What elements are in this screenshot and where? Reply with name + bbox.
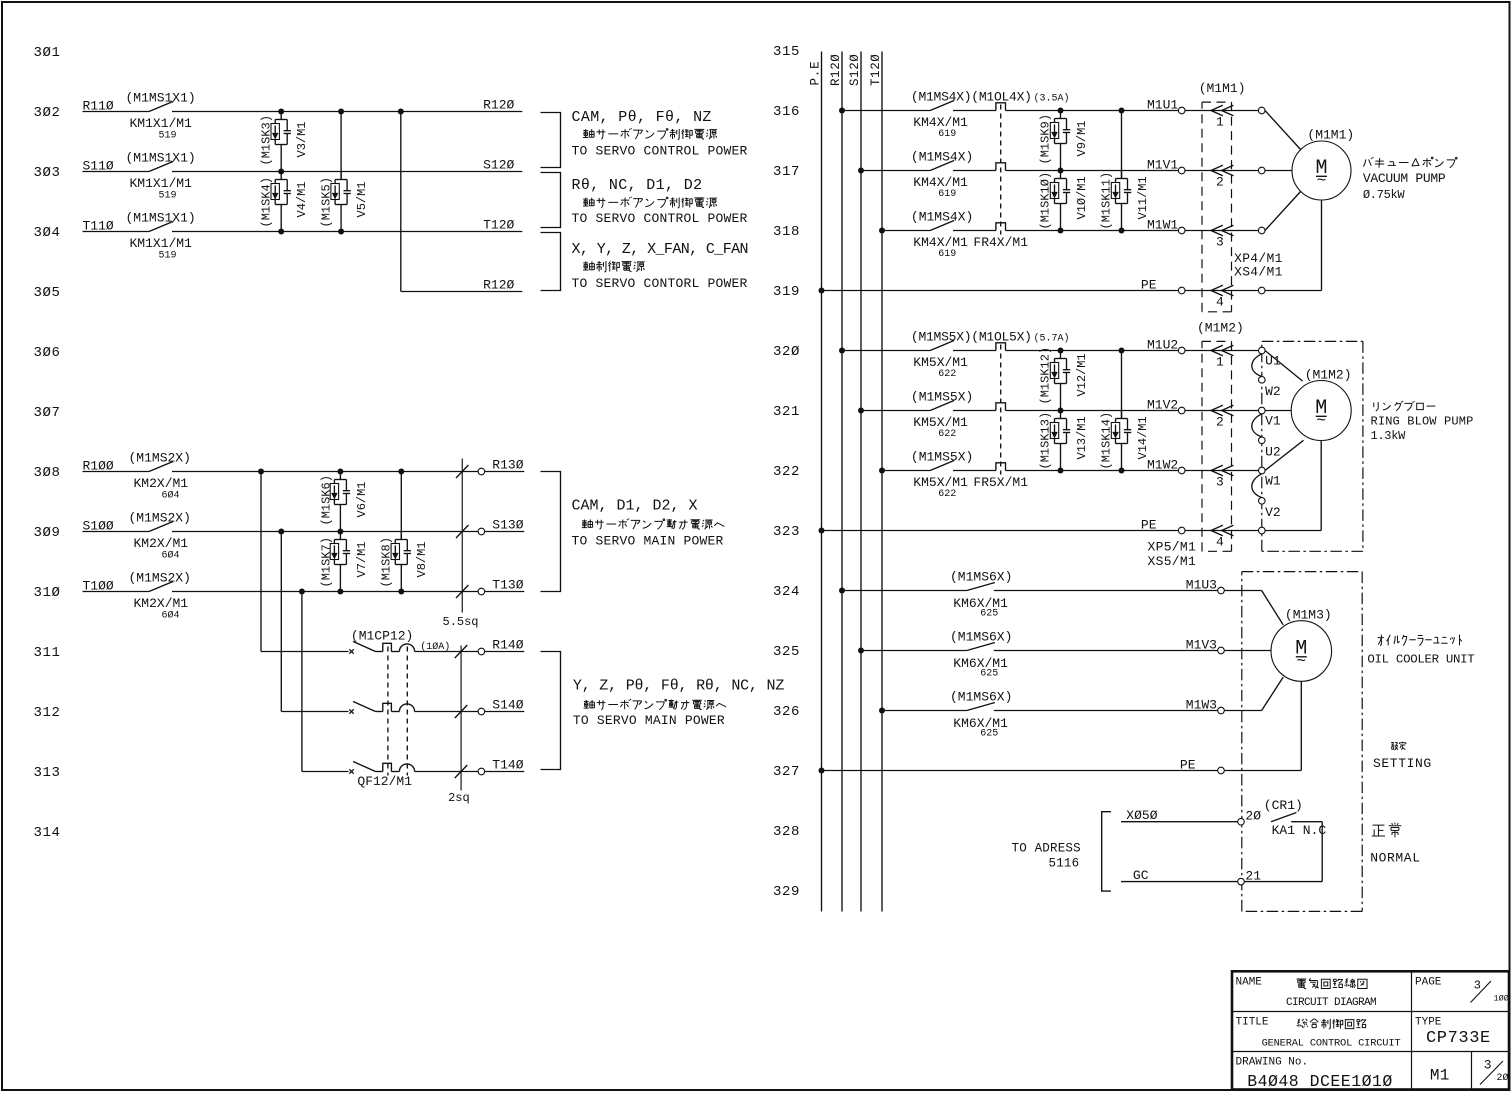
wire T100 row 310 bbox=[83, 591, 150, 593]
svg-text:KM5X/M1: KM5X/M1 bbox=[913, 475, 968, 490]
surge killer M1SK13 V13/M1 bbox=[1060, 411, 1062, 419]
contact KM6X/M1 (M1MS6X) row 326 bbox=[967, 703, 995, 711]
bus junction row 318 bbox=[879, 228, 885, 234]
svg-text:(M1SK8): (M1SK8) bbox=[380, 537, 394, 587]
svg-text:622: 622 bbox=[938, 369, 956, 380]
connector pin 3 arrows bbox=[1211, 225, 1223, 235]
surge killer M1SK9 V9/M1 bbox=[1060, 111, 1062, 119]
svg-text:(M1SK12): (M1SK12) bbox=[1039, 347, 1053, 405]
svg-text:V2: V2 bbox=[1265, 505, 1281, 520]
svg-text:CP733E: CP733E bbox=[1426, 1029, 1491, 1048]
svg-text:M1W2: M1W2 bbox=[1147, 458, 1178, 473]
svg-text:625: 625 bbox=[980, 609, 998, 620]
wire vertical to R120 row305 bbox=[400, 112, 402, 292]
svg-text:31Ø: 31Ø bbox=[34, 585, 61, 601]
svg-text:CIRCUIT DIAGRAM: CIRCUIT DIAGRAM bbox=[1286, 997, 1376, 1009]
svg-text:KM4X/M1: KM4X/M1 bbox=[913, 235, 968, 250]
svg-text:3Ø3: 3Ø3 bbox=[34, 165, 61, 181]
bus junction row 327 bbox=[819, 768, 825, 774]
wire S100 row 309 bbox=[83, 531, 150, 533]
bracket group CAM P0 F0 NZ bbox=[541, 113, 561, 168]
junction row302 x340 bbox=[338, 109, 344, 115]
connector M1M1 dashed box bbox=[1202, 101, 1232, 103]
svg-text:5116: 5116 bbox=[1049, 857, 1080, 871]
wire feed row 312 bbox=[280, 532, 282, 712]
surge killer M1SK7 V7/M1 bbox=[339, 532, 341, 540]
motor M1M3 oil cooler bbox=[1271, 621, 1332, 682]
svg-text:3Ø9: 3Ø9 bbox=[34, 525, 61, 541]
svg-text:(M1CP12): (M1CP12) bbox=[351, 629, 413, 644]
svg-text:(M1MS1X1): (M1MS1X1) bbox=[126, 211, 196, 226]
bracket group CAM D1 D2 X bbox=[541, 472, 561, 592]
bus P.E bbox=[821, 52, 823, 912]
text ring blow pump labels bbox=[1374, 401, 1436, 411]
svg-text:V1Ø/M1: V1Ø/M1 bbox=[1075, 176, 1089, 219]
svg-text:PE: PE bbox=[1141, 278, 1157, 293]
svg-text:T14Ø: T14Ø bbox=[492, 758, 523, 773]
connector pin 1 arrows bbox=[1211, 105, 1223, 115]
svg-text:FR4X/M1: FR4X/M1 bbox=[973, 235, 1028, 250]
svg-text:KM1X1/M1: KM1X1/M1 bbox=[130, 236, 193, 251]
svg-text:GENERAL CONTROL CIRCUIT: GENERAL CONTROL CIRCUIT bbox=[1262, 1038, 1401, 1050]
connector M1M2 pin 2 arrows bbox=[1211, 405, 1223, 415]
svg-text:619: 619 bbox=[938, 129, 956, 140]
svg-text:TITLE: TITLE bbox=[1236, 1017, 1269, 1029]
overload element FR4X/M1 row 318 bbox=[996, 223, 1006, 231]
svg-text:T11Ø: T11Ø bbox=[83, 219, 114, 234]
svg-text:S13Ø: S13Ø bbox=[492, 518, 523, 533]
junction row309 x340 bbox=[337, 529, 343, 535]
svg-text:(M1M1): (M1M1) bbox=[1307, 128, 1354, 143]
junction row316 x1060 bbox=[1058, 108, 1064, 114]
svg-text:TYPE: TYPE bbox=[1415, 1017, 1442, 1029]
svg-text:R13Ø: R13Ø bbox=[492, 458, 523, 473]
wire row 324 M1U3 bbox=[842, 590, 967, 592]
text setting bbox=[1391, 742, 1406, 750]
svg-text:~: ~ bbox=[1296, 653, 1306, 671]
surge killer M1SK10 V10/M1 bbox=[1060, 171, 1062, 179]
svg-text:(M1MS1X1): (M1MS1X1) bbox=[126, 151, 196, 166]
svg-text:S12Ø: S12Ø bbox=[483, 158, 514, 173]
svg-text:(M1MS1X1): (M1MS1X1) bbox=[126, 91, 196, 106]
svg-text:P.E: P.E bbox=[809, 61, 823, 86]
contact KM5X/M1 (M1MS5X) row 322 bbox=[930, 461, 954, 471]
svg-text:TO SERVO MAIN POWER: TO SERVO MAIN POWER bbox=[572, 534, 724, 549]
cable mark 5.5sq bbox=[461, 459, 463, 613]
svg-text:RING BLOW PUMP: RING BLOW PUMP bbox=[1371, 415, 1474, 429]
connector M1M2 pin 3 arrows bbox=[1211, 465, 1223, 475]
svg-text:3Ø1: 3Ø1 bbox=[34, 45, 61, 61]
contact KM6X/M1 (M1MS6X) row 325 bbox=[967, 643, 995, 651]
svg-text:V7/M1: V7/M1 bbox=[355, 541, 369, 577]
svg-text:6Ø4: 6Ø4 bbox=[162, 490, 180, 502]
svg-text:(M1SK7): (M1SK7) bbox=[320, 537, 334, 587]
svg-text:V13/M1: V13/M1 bbox=[1075, 416, 1089, 459]
svg-text:U2: U2 bbox=[1265, 444, 1281, 459]
svg-text:(M1MS5X)(M1OL5X): (M1MS5X)(M1OL5X) bbox=[911, 330, 1032, 345]
motor-side terminal row 316 bbox=[1258, 107, 1265, 114]
surge killer M1SK4 V4/M1 bbox=[280, 172, 282, 180]
surge killer M1SK5 V5/M1 bbox=[340, 112, 342, 180]
svg-text:3Ø6: 3Ø6 bbox=[34, 345, 61, 361]
svg-text:FR5X/M1: FR5X/M1 bbox=[973, 475, 1028, 490]
svg-text:(M1M1): (M1M1) bbox=[1199, 81, 1246, 96]
svg-text:(M1MS4X): (M1MS4X) bbox=[911, 150, 973, 165]
svg-text:KA1 N.C: KA1 N.C bbox=[1272, 823, 1327, 838]
svg-text:519: 519 bbox=[159, 251, 177, 262]
svg-text:(M1SK1Ø): (M1SK1Ø) bbox=[1039, 172, 1053, 230]
svg-text:KM5X/M1: KM5X/M1 bbox=[913, 355, 968, 370]
svg-text:KM2X/M1: KM2X/M1 bbox=[134, 476, 189, 491]
svg-text:R12Ø: R12Ø bbox=[483, 98, 514, 113]
terminal S140 bbox=[478, 708, 485, 715]
connector pin 4 arrows bbox=[1211, 285, 1223, 295]
bulkhead terminals and winding links M1M2 bbox=[1259, 347, 1266, 354]
contact KM2X/M1 (M1MS2X) row 310 bbox=[149, 582, 173, 592]
wire row 320 M1U2 bbox=[842, 350, 930, 352]
terminal R130 bbox=[478, 468, 485, 475]
svg-text:X, Y, Z, X_FAN, C_FAN: X, Y, Z, X_FAN, C_FAN bbox=[572, 241, 748, 258]
motor-side terminal row 318 bbox=[1258, 227, 1265, 234]
wire X050 row 328 bbox=[1121, 821, 1238, 823]
overload element FR4X/M1 row 316 bbox=[996, 103, 1006, 111]
svg-text:QF12/M1: QF12/M1 bbox=[357, 774, 412, 789]
junction row308 x340 bbox=[337, 469, 343, 475]
breaker pole QF12/M1 row 312 bbox=[349, 709, 353, 713]
svg-text:323: 323 bbox=[773, 524, 800, 540]
svg-text:T13Ø: T13Ø bbox=[492, 578, 523, 593]
svg-text:V9/M1: V9/M1 bbox=[1075, 120, 1089, 156]
overload linkage dashed row320-322 bbox=[1000, 345, 1002, 475]
svg-text:T1ØØ: T1ØØ bbox=[83, 579, 114, 594]
contact KM5X/M1 (M1MS5X) row 320 bbox=[930, 341, 954, 351]
overload element FR5X/M1 row 321 bbox=[996, 403, 1006, 411]
svg-text:21: 21 bbox=[1245, 869, 1261, 884]
svg-text:(CR1): (CR1) bbox=[1264, 798, 1303, 813]
svg-text:(M1SK4): (M1SK4) bbox=[260, 177, 274, 227]
svg-text:CAM, D1, D2, X: CAM, D1, D2, X bbox=[572, 498, 698, 515]
svg-text:Y, Z, Pθ, Fθ, Rθ, NC, NZ: Y, Z, Pθ, Fθ, Rθ, NC, NZ bbox=[573, 678, 784, 695]
svg-text:2Ø: 2Ø bbox=[1497, 1072, 1509, 1084]
svg-text:V4/M1: V4/M1 bbox=[295, 181, 309, 217]
svg-text:(M1SK13): (M1SK13) bbox=[1039, 412, 1053, 470]
svg-text:3Ø4: 3Ø4 bbox=[34, 225, 61, 241]
wire GC row 329 bbox=[1121, 881, 1238, 883]
bus S120 bbox=[860, 52, 862, 912]
svg-text:M1W1: M1W1 bbox=[1147, 218, 1178, 233]
contact KM2X/M1 (M1MS2X) row 308 bbox=[149, 462, 173, 472]
svg-text:2Ø: 2Ø bbox=[1245, 809, 1261, 824]
svg-text:V11/M1: V11/M1 bbox=[1136, 176, 1150, 219]
bus junction row 317 bbox=[858, 168, 864, 174]
svg-text:NAME: NAME bbox=[1236, 977, 1263, 989]
wire R100 row 308 bbox=[83, 471, 150, 473]
junction row320 x1060 bbox=[1058, 348, 1064, 354]
junction row322 x1060 bbox=[1058, 468, 1064, 474]
svg-text:TO SERVO CONTROL POWER: TO SERVO CONTROL POWER bbox=[572, 211, 748, 226]
bus junction row 322 bbox=[879, 468, 885, 474]
text oil cooler unit labels bbox=[1378, 635, 1462, 646]
overload element FR5X/M1 row 320 bbox=[996, 343, 1006, 351]
svg-text:3Ø8: 3Ø8 bbox=[34, 465, 61, 481]
junction row320 x1121 bbox=[1119, 348, 1125, 354]
svg-text:KM2X/M1: KM2X/M1 bbox=[134, 536, 189, 551]
svg-text:Rθ, NC, D1, D2: Rθ, NC, D1, D2 bbox=[572, 177, 703, 194]
title block frame bbox=[1232, 971, 1509, 1089]
svg-text:KM1X1/M1: KM1X1/M1 bbox=[130, 116, 193, 131]
junction row310 x400 bbox=[398, 589, 404, 595]
svg-text:1: 1 bbox=[1216, 115, 1224, 130]
svg-text:V6/M1: V6/M1 bbox=[355, 481, 369, 517]
svg-text:R14Ø: R14Ø bbox=[492, 638, 523, 653]
contact KM1X1/M1 (M1MS1X1) row 302 bbox=[149, 102, 173, 112]
svg-text:(3.5A): (3.5A) bbox=[1034, 93, 1070, 105]
svg-text:325: 325 bbox=[773, 644, 800, 660]
svg-text:622: 622 bbox=[938, 429, 956, 440]
connector M1M2 pin 1 arrows bbox=[1211, 345, 1223, 355]
bus junction row 325 bbox=[858, 648, 864, 654]
junction row316 x1121 bbox=[1119, 108, 1125, 114]
terminal T140 bbox=[478, 768, 485, 775]
junction row321 x1060 bbox=[1058, 408, 1064, 414]
svg-text:W2: W2 bbox=[1265, 384, 1281, 399]
terminal S130 bbox=[478, 528, 485, 535]
enclosure box oil cooler dash-dot bbox=[1242, 571, 1362, 573]
svg-text:M1U1: M1U1 bbox=[1147, 98, 1178, 113]
svg-text:V14/M1: V14/M1 bbox=[1136, 416, 1150, 459]
svg-text:PAGE: PAGE bbox=[1415, 977, 1442, 989]
motor M1M2 wiring bbox=[1265, 351, 1303, 382]
svg-text:R12Ø: R12Ø bbox=[483, 278, 514, 293]
junction row318 x1121 bbox=[1119, 228, 1125, 234]
svg-text:XP5/M1: XP5/M1 bbox=[1148, 540, 1197, 555]
svg-text:V5/M1: V5/M1 bbox=[355, 181, 369, 217]
wire feed row 311 bbox=[260, 472, 262, 652]
wire T110 row 304 bbox=[83, 231, 150, 233]
svg-text:2sq: 2sq bbox=[448, 791, 470, 805]
junction row310 x340 bbox=[337, 589, 343, 595]
svg-text:M1V3: M1V3 bbox=[1186, 638, 1217, 653]
svg-text:~: ~ bbox=[1317, 172, 1327, 190]
svg-text:XS4/M1: XS4/M1 bbox=[1234, 265, 1283, 280]
svg-text:322: 322 bbox=[773, 464, 800, 480]
bracket group X Y Z FAN bbox=[541, 233, 561, 291]
svg-text:R11Ø: R11Ø bbox=[83, 99, 114, 114]
wire row 323 PE bbox=[822, 530, 1179, 532]
svg-text:327: 327 bbox=[773, 764, 800, 780]
wire row 319 PE bbox=[822, 290, 1179, 292]
svg-text:3: 3 bbox=[1216, 475, 1224, 490]
motor M1M2 ring blow pump bbox=[1291, 381, 1351, 441]
svg-text:(M1MS2X): (M1MS2X) bbox=[129, 451, 191, 466]
bracket group R0 NC D1 D2 bbox=[541, 173, 561, 228]
surge killer M1SK6 V6/M1 bbox=[339, 472, 341, 480]
surge killer M1SK8 V8/M1 bbox=[400, 472, 402, 540]
overload element FR5X/M1 row 322 bbox=[996, 463, 1006, 471]
svg-text:6Ø4: 6Ø4 bbox=[162, 610, 180, 622]
terminal T130 bbox=[478, 588, 485, 595]
svg-text:313: 313 bbox=[34, 765, 61, 781]
svg-text:TO SERVO MAIN POWER: TO SERVO MAIN POWER bbox=[573, 713, 725, 728]
bracket to address 5116 bbox=[1102, 812, 1111, 891]
svg-text:(M1MS6X): (M1MS6X) bbox=[950, 630, 1012, 645]
svg-text:(M1M3): (M1M3) bbox=[1285, 608, 1332, 623]
junction row308 x400 bbox=[398, 469, 404, 475]
junction row304 x340 bbox=[338, 229, 344, 235]
connector pin 2 arrows bbox=[1211, 165, 1223, 175]
svg-text:TO SERVO CONTROL POWER: TO SERVO CONTROL POWER bbox=[572, 144, 748, 159]
cable mark 2sq bbox=[460, 646, 462, 791]
svg-text:(M1MS6X): (M1MS6X) bbox=[950, 570, 1012, 585]
svg-text:M1V1: M1V1 bbox=[1147, 158, 1178, 173]
svg-text:519: 519 bbox=[159, 191, 177, 202]
title block grid bbox=[1231, 1011, 1509, 1013]
svg-text:324: 324 bbox=[773, 584, 800, 600]
svg-text:318: 318 bbox=[773, 224, 800, 240]
bus junction row 319 bbox=[819, 288, 825, 294]
svg-text:1: 1 bbox=[1216, 355, 1224, 370]
svg-text:329: 329 bbox=[773, 884, 800, 900]
svg-text:S11Ø: S11Ø bbox=[83, 159, 114, 174]
svg-text:519: 519 bbox=[159, 131, 177, 142]
junction row302 x400 bbox=[398, 109, 404, 115]
svg-text:(1ØA): (1ØA) bbox=[420, 641, 450, 653]
overload element FR4X/M1 row 317 bbox=[996, 163, 1006, 171]
junction row302 x280 bbox=[278, 109, 284, 115]
svg-text:311: 311 bbox=[34, 645, 61, 661]
svg-text:NORMAL: NORMAL bbox=[1370, 851, 1420, 866]
svg-text:M1U3: M1U3 bbox=[1186, 578, 1217, 593]
svg-text:V12/M1: V12/M1 bbox=[1075, 353, 1089, 396]
terminal 20 bbox=[1238, 818, 1245, 825]
svg-text:(M1SK9): (M1SK9) bbox=[1039, 114, 1053, 164]
svg-text:M1W3: M1W3 bbox=[1186, 698, 1217, 713]
surge killer M1SK12 V12/M1 bbox=[1060, 351, 1062, 359]
svg-text:328: 328 bbox=[773, 824, 800, 840]
svg-text:315: 315 bbox=[773, 44, 800, 60]
wire row 322 M1W2 bbox=[882, 470, 930, 472]
svg-text:(M1SK3): (M1SK3) bbox=[260, 115, 274, 165]
breaker linkage dashed bbox=[387, 647, 389, 776]
svg-text:CAM, Pθ, Fθ, NZ: CAM, Pθ, Fθ, NZ bbox=[572, 109, 712, 126]
contact KM2X/M1 (M1MS2X) row 309 bbox=[149, 522, 173, 532]
svg-text:(M1SK14): (M1SK14) bbox=[1100, 412, 1114, 470]
svg-text:S1ØØ: S1ØØ bbox=[83, 519, 114, 534]
svg-text:DRAWING No.: DRAWING No. bbox=[1236, 1057, 1309, 1069]
wire row 317 M1V1 bbox=[861, 170, 930, 172]
svg-text:319: 319 bbox=[773, 284, 800, 300]
breaker pole QF12/M1 row 311 bbox=[349, 649, 353, 653]
svg-text:1ØØ: 1ØØ bbox=[1494, 994, 1509, 1004]
contact KM4X/M1 (M1MS4X) row 318 bbox=[930, 221, 954, 231]
svg-text:4: 4 bbox=[1216, 295, 1224, 310]
svg-text:(M1M2): (M1M2) bbox=[1305, 368, 1352, 383]
wire row 316 M1U1 bbox=[842, 110, 930, 112]
svg-text:M1U2: M1U2 bbox=[1147, 338, 1178, 353]
bus T120 bbox=[881, 52, 883, 912]
svg-text:326: 326 bbox=[773, 704, 800, 720]
svg-text:(M1MS6X): (M1MS6X) bbox=[950, 690, 1012, 705]
wire feed row 313 bbox=[301, 592, 303, 772]
svg-text:W1: W1 bbox=[1265, 474, 1281, 489]
svg-text:3: 3 bbox=[1474, 979, 1481, 993]
svg-text:PE: PE bbox=[1180, 758, 1196, 773]
svg-text:(M1MS2X): (M1MS2X) bbox=[129, 511, 191, 526]
svg-text:(M1MS4X)(M1OL4X): (M1MS4X)(M1OL4X) bbox=[911, 90, 1032, 105]
enclosure box ring blow pump dash-dot bbox=[1262, 340, 1363, 342]
bus junction row 324 bbox=[839, 588, 845, 594]
svg-text:(5.7A): (5.7A) bbox=[1034, 333, 1070, 345]
wire row 318 M1W1 bbox=[882, 230, 930, 232]
motor M1M1 vacuum pump bbox=[1292, 141, 1351, 200]
svg-text:KM4X/M1: KM4X/M1 bbox=[913, 175, 968, 190]
svg-text:6Ø4: 6Ø4 bbox=[162, 550, 180, 562]
overload linkage dashed bbox=[1000, 105, 1002, 235]
contact KM6X/M1 (M1MS6X) row 324 bbox=[967, 583, 995, 591]
motor-side terminal row 317 bbox=[1258, 167, 1265, 174]
svg-text:TO ADRESS: TO ADRESS bbox=[1012, 842, 1081, 856]
contact KM1X1/M1 (M1MS1X1) row 303 bbox=[149, 162, 173, 172]
svg-text:TO SERVO CONTORL POWER: TO SERVO CONTORL POWER bbox=[572, 276, 748, 291]
svg-text:GC: GC bbox=[1133, 868, 1149, 883]
svg-text:Ø.75kW: Ø.75kW bbox=[1363, 188, 1406, 202]
bus junction row 326 bbox=[879, 708, 885, 714]
surge killer M1SK14 V14/M1 bbox=[1121, 351, 1123, 419]
svg-text:T12Ø: T12Ø bbox=[869, 54, 883, 86]
svg-text:PE: PE bbox=[1141, 518, 1157, 533]
text normal bbox=[1372, 823, 1401, 838]
contact KM4X/M1 (M1MS4X) row 316 bbox=[930, 101, 954, 111]
svg-text:312: 312 bbox=[34, 705, 61, 721]
svg-text:32Ø: 32Ø bbox=[773, 344, 800, 360]
bracket group Y Z P0 F0 R0 NC NZ bbox=[541, 652, 561, 770]
connector M1M2 dashed box bbox=[1202, 340, 1232, 342]
terminal R140 bbox=[478, 648, 485, 655]
svg-text:XS5/M1: XS5/M1 bbox=[1148, 554, 1197, 569]
svg-text:(M1MS4X): (M1MS4X) bbox=[911, 210, 973, 225]
svg-text:SETTING: SETTING bbox=[1373, 756, 1432, 771]
svg-text:3: 3 bbox=[1484, 1058, 1492, 1073]
svg-text:3Ø7: 3Ø7 bbox=[34, 405, 61, 421]
svg-text:KM5X/M1: KM5X/M1 bbox=[913, 415, 968, 430]
motor-side terminal row 319 bbox=[1258, 287, 1265, 294]
wire row 321 M1V2 bbox=[861, 410, 930, 412]
contact KM5X/M1 (M1MS5X) row 321 bbox=[930, 401, 954, 411]
bus junction row 323 bbox=[819, 528, 825, 534]
junction row318 x1060 bbox=[1058, 228, 1064, 234]
svg-text:(M1M2): (M1M2) bbox=[1197, 321, 1244, 336]
svg-text:4: 4 bbox=[1216, 535, 1224, 550]
svg-text:T12Ø: T12Ø bbox=[483, 218, 514, 233]
surge killer M1SK11 V11/M1 bbox=[1121, 111, 1123, 179]
svg-text:5.5sq: 5.5sq bbox=[443, 615, 479, 629]
surge killer M1SK3 V3/M1 bbox=[280, 112, 282, 120]
svg-text:(M1MS5X): (M1MS5X) bbox=[911, 450, 973, 465]
svg-text:3: 3 bbox=[1216, 235, 1224, 250]
bus junction row 321 bbox=[858, 408, 864, 414]
breaker pole QF12/M1 row 313 bbox=[349, 769, 353, 773]
svg-text:V8/M1: V8/M1 bbox=[415, 541, 429, 577]
wire row 325 M1V3 bbox=[861, 650, 967, 652]
svg-text:M1V2: M1V2 bbox=[1147, 398, 1178, 413]
svg-text:(M1SK5): (M1SK5) bbox=[320, 177, 334, 227]
svg-text:619: 619 bbox=[938, 249, 956, 260]
svg-text:(M1MS2X): (M1MS2X) bbox=[129, 571, 191, 586]
svg-text:(M1SK11): (M1SK11) bbox=[1100, 172, 1114, 230]
junction row310 x301 bbox=[299, 589, 305, 595]
svg-text:V1: V1 bbox=[1265, 414, 1281, 429]
svg-text:B4Ø48 DCEE1Ø1Ø: B4Ø48 DCEE1Ø1Ø bbox=[1247, 1072, 1393, 1091]
